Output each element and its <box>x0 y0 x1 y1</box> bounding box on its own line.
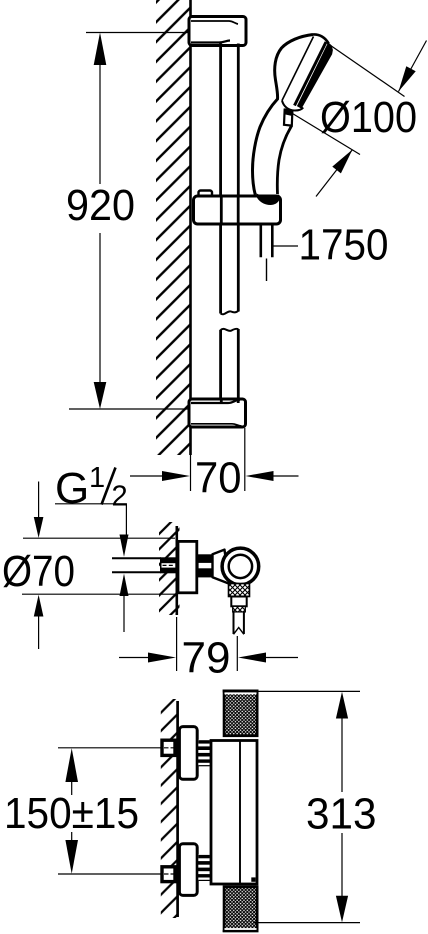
dimension Ø100 upper extension line <box>327 43 405 97</box>
bottom knurled knob <box>224 887 257 931</box>
Ø70 lower arrowhead <box>34 595 44 617</box>
rail lines through holder <box>221 198 238 223</box>
Ø100 upper arrowhead <box>399 66 416 91</box>
face plate front edge <box>295 42 327 106</box>
Ø70 upper arrowhead <box>34 517 44 538</box>
svg-text:920: 920 <box>66 181 135 230</box>
Ø100 lower arrowhead <box>332 150 352 174</box>
upper square centre dashes <box>164 747 175 749</box>
top wall bracket <box>189 17 246 46</box>
top knob white slot <box>225 692 257 694</box>
bottom wall bracket <box>189 399 246 427</box>
glide holder knob <box>199 191 213 198</box>
lower square centre dashes <box>164 873 175 875</box>
holder cone <box>213 550 230 584</box>
shower rail right edge (broken) <box>237 44 240 400</box>
hand shower head top cap <box>313 34 329 43</box>
hose knurled band <box>233 606 246 612</box>
dimension 313 down arrowhead <box>336 896 348 923</box>
wall line bottom figure <box>176 701 179 917</box>
Ø100 upper arrow tail <box>399 41 427 92</box>
hose middle figure <box>234 612 244 634</box>
top knurled knob <box>224 691 257 736</box>
small black detail square <box>251 877 255 881</box>
upper inlet pipe / 150 extension line <box>58 747 161 749</box>
dimension 70 right arrow <box>271 475 299 477</box>
G 1/2 underline <box>55 503 127 505</box>
313 dimension line lower segment <box>341 833 343 898</box>
G 1/2 down arrowhead <box>120 535 129 557</box>
hose ferrule <box>231 597 246 607</box>
connector nut (black with slot) <box>197 554 212 577</box>
150 dimension line upper segment <box>71 782 73 795</box>
body inner vertical line <box>239 741 241 885</box>
150 dimension line lower segment <box>71 832 73 841</box>
rail lines through bottom bracket <box>221 399 238 403</box>
glide holder body <box>194 196 281 224</box>
top bracket inner top line <box>191 21 238 24</box>
svg-text:150±15: 150±15 <box>4 789 139 838</box>
spray face dark band <box>297 42 333 109</box>
hose continuation thin line <box>266 259 268 282</box>
svg-text:G: G <box>55 464 89 513</box>
dimension 920 line upper segment <box>99 60 101 184</box>
hose broken end notch <box>234 628 244 635</box>
svg-text:313: 313 <box>306 790 377 839</box>
top knob black bar <box>223 690 259 693</box>
dimension 313 up arrowhead <box>336 692 348 719</box>
lower flange <box>179 844 197 896</box>
dimension 70 left arrow <box>130 475 165 477</box>
rail break wavy line upper <box>221 311 239 315</box>
rail break wavy line lower <box>221 329 239 331</box>
dimension 79 left arrow <box>119 657 150 659</box>
svg-text:79: 79 <box>182 634 231 683</box>
upper flange <box>179 727 197 780</box>
dimension 150±15 lower arrowhead <box>65 840 78 874</box>
bottom knob black bar <box>223 930 259 932</box>
Ø70 lower arrow tail <box>38 616 40 650</box>
dimension 920 bottom extension line <box>69 408 189 410</box>
dimension 313 top extension line <box>259 690 361 692</box>
svg-text:1750: 1750 <box>299 221 389 270</box>
thermostat body <box>211 741 257 885</box>
wall hatching bottom <box>161 699 178 918</box>
lower union nut <box>198 855 210 881</box>
Ø70 upper arrow tail <box>38 482 40 522</box>
wall hatching top <box>156 0 190 455</box>
svg-text:2: 2 <box>112 481 128 513</box>
wall line middle figure <box>176 526 179 615</box>
G 1/2 leader down <box>125 504 127 537</box>
svg-text:1: 1 <box>89 462 105 494</box>
dimension Ø70 top extension line <box>23 537 175 539</box>
threaded nut behind wall <box>160 557 177 573</box>
dimension 79 left extension line <box>176 617 178 671</box>
dimension Ø70 bottom extension line <box>22 593 175 595</box>
svg-text:Ø70: Ø70 <box>2 547 75 596</box>
pivot tab dark top <box>284 108 292 116</box>
svg-text:70: 70 <box>195 454 242 503</box>
pivot tab below head <box>284 109 292 126</box>
dimension 79 right arrow <box>263 657 298 659</box>
upper wall union square <box>162 740 175 755</box>
holder ring outer <box>222 548 259 585</box>
handle end dark crescent in holder <box>256 194 280 206</box>
dimension Ø100 lower extension line <box>290 112 360 155</box>
dimension 920 top extension line <box>86 32 190 34</box>
bottom knob white slot <box>225 928 257 930</box>
face plate thin inner line <box>282 37 314 101</box>
knurled cone nut <box>229 584 250 597</box>
nut white slot with centre dashes <box>162 563 176 567</box>
label G 1/2 : fraction slash <box>102 468 116 505</box>
G 1/2 up arrow tail <box>123 596 125 632</box>
shower hose upper segment <box>261 224 273 257</box>
G 1/2 up arrowhead <box>120 574 129 596</box>
dimension 313 bottom extension line <box>253 922 360 924</box>
shower rail left edge (broken) <box>219 44 222 400</box>
G 1/2 nipple top line <box>112 557 161 559</box>
bottom bracket inner top line <box>191 400 240 403</box>
dimension 150±15 upper arrowhead <box>65 748 78 782</box>
313 dimension line upper segment <box>341 716 343 792</box>
dimension 70 left extension line <box>190 455 192 491</box>
lower wall union square <box>162 867 175 882</box>
holder ring inner <box>229 555 252 578</box>
wall hatching middle <box>159 522 180 615</box>
escutcheon Ø70 side view <box>178 541 197 592</box>
handle inner edge <box>277 126 291 194</box>
dimension 79 right extension line <box>236 636 238 671</box>
upper union nut <box>198 740 210 766</box>
G 1/2 nipple bottom line <box>112 571 161 573</box>
svg-text:Ø100: Ø100 <box>320 93 417 142</box>
hand shower back outline (head into handle) <box>253 35 314 195</box>
leader line 1750 <box>272 245 298 247</box>
dimension 70 right extension line <box>244 428 246 491</box>
lower inlet pipe / 150 extension line <box>58 873 161 875</box>
top bracket inner bottom line <box>191 41 230 43</box>
dimension 920 line lower segment <box>99 233 101 390</box>
Ø100 lower arrow tail <box>316 150 353 197</box>
bottom bracket inner bottom line <box>191 424 242 426</box>
wall line top figure <box>189 0 192 455</box>
arrowhead 920 up <box>94 33 107 66</box>
arrowhead 920 down <box>94 382 107 409</box>
head bottom cap <box>282 101 303 111</box>
